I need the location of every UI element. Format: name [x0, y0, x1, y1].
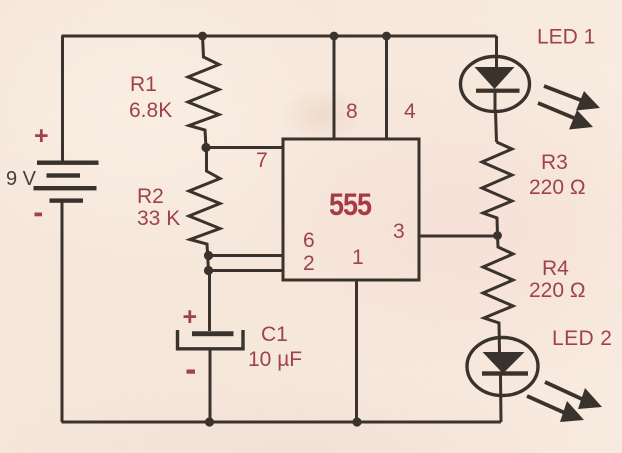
svg-text:+: + [183, 303, 198, 331]
svg-text:7: 7 [256, 149, 268, 172]
node pin6 junction [204, 251, 213, 260]
wire C1 top lead [208, 271, 211, 332]
label 555 [329, 188, 372, 222]
wire pin6 [209, 254, 284, 257]
svg-text:9 V: 9 V [6, 168, 37, 190]
svg-text:R4: R4 [542, 257, 569, 280]
capacitor C1 [178, 330, 244, 349]
resistor R4 [483, 236, 513, 353]
resistor R1 [188, 36, 219, 148]
svg-text:6: 6 [303, 229, 315, 252]
svg-text:2: 2 [303, 252, 315, 275]
op-amp U1 555 timer box [283, 139, 419, 280]
wire pin2 [209, 269, 284, 272]
svg-text:R3: R3 [541, 151, 568, 174]
wire pin4 [385, 36, 388, 139]
LED 1 [461, 57, 530, 112]
wire bottom rail [62, 421, 502, 424]
svg-text:220 Ω: 220 Ω [529, 279, 586, 302]
node R1-R2 pin7 junction [201, 143, 210, 152]
svg-text:C1: C1 [261, 323, 288, 346]
svg-text:6.8K: 6.8K [129, 99, 172, 122]
svg-text:555: 555 [329, 188, 372, 222]
battery B1 9V [34, 161, 99, 203]
LED1 light arrow lower [538, 103, 593, 130]
wire LED1 to R3 [496, 111, 497, 142]
svg-text:R1: R1 [130, 73, 157, 96]
LED2 light arrow upper [545, 382, 602, 409]
wire pin3 [419, 235, 497, 238]
node pin2 junction [204, 266, 213, 275]
svg-text:10 µF: 10 µF [248, 348, 302, 371]
LED2 light arrow lower [527, 396, 584, 422]
node top rail / pin4 junction [382, 32, 391, 41]
node bottom rail / C1 junction [205, 417, 214, 426]
wire C1 bottom lead [209, 350, 212, 422]
svg-text:8: 8 [346, 100, 358, 123]
wire pin1 [355, 280, 358, 422]
svg-text:1: 1 [352, 246, 364, 269]
wire LED1 top lead [495, 36, 498, 67]
svg-text:220 Ω: 220 Ω [529, 176, 586, 199]
capacitor minus sign [187, 370, 196, 374]
node top rail / R1 junction [198, 32, 207, 41]
wire battery bottom lead / left vertical [61, 202, 64, 422]
resistor R3 [482, 142, 512, 236]
svg-text:R2: R2 [137, 185, 164, 208]
node top rail / pin8 junction [330, 32, 339, 41]
wire top rail [62, 35, 497, 38]
svg-text:33 K: 33 K [137, 207, 180, 230]
svg-text:4: 4 [404, 100, 416, 123]
LED1 light arrow upper [544, 86, 600, 111]
wire left vertical (battery top lead) [61, 36, 64, 161]
svg-text:+: + [34, 122, 49, 150]
resistor R2 [189, 148, 220, 271]
wire pin8 [333, 36, 336, 139]
LED 2 [467, 338, 538, 423]
node R3-R4 pin3 junction [493, 231, 502, 240]
svg-text:LED 2: LED 2 [552, 327, 612, 350]
wire pin7 [206, 146, 283, 149]
node bottom rail / pin1 junction [352, 417, 361, 426]
svg-text:3: 3 [393, 220, 405, 243]
battery minus sign [35, 213, 43, 217]
svg-text:LED 1: LED 1 [537, 26, 595, 49]
